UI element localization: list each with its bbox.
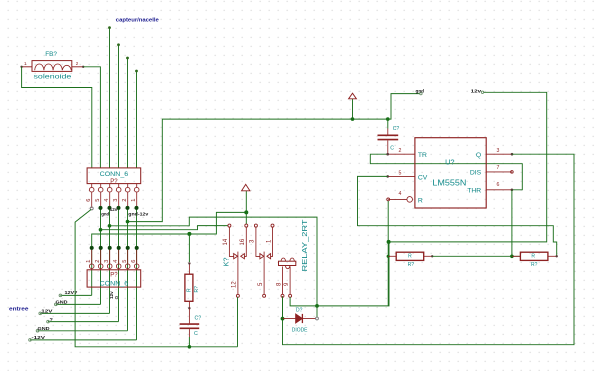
svg-text:1: 1 — [86, 260, 92, 263]
svg-text:6: 6 — [497, 182, 500, 188]
svg-text:5: 5 — [95, 199, 101, 202]
connector P3 CONN_6 body — [87, 168, 141, 184]
svg-text:R: R — [187, 288, 193, 292]
svg-text:6: 6 — [86, 199, 92, 202]
resistor R2 top pin — [188, 263, 190, 274]
svg-text:5: 5 — [399, 170, 402, 176]
svg-text:CV: CV — [418, 175, 428, 182]
junction above lower connector pin4 — [117, 246, 121, 250]
node GND entree stub — [56, 303, 101, 305]
wire 12v net: diode column right and up to resistors — [317, 244, 389, 306]
relay K1 contact triangle b — [241, 254, 245, 259]
svg-text:12: 12 — [232, 281, 238, 288]
svg-text:12V: 12V — [41, 309, 53, 314]
junction gnd-12v at GND symbol stem — [351, 117, 355, 121]
diode D1 cathode open end — [316, 317, 319, 320]
wire TR feedback to THR — [370, 154, 522, 190]
relay K1 contact triangle c — [260, 254, 264, 259]
open end at gnd label — [420, 92, 422, 94]
wire capteur a to connector pin4 — [109, 28, 111, 168]
wire cap C2 to bottom-left rail — [188, 337, 190, 347]
resistor R5 body — [396, 252, 424, 260]
svg-text:C?: C? — [393, 126, 400, 132]
svg-text:FB?: FB? — [45, 51, 57, 58]
capacitor C3 bottom lead to TR — [387, 140, 389, 154]
svg-text:-12V: -12V — [32, 335, 47, 340]
svg-text:12v: 12v — [471, 89, 482, 95]
wire 12V? junction down to resistor R2 — [188, 234, 190, 262]
svg-text:C?: C? — [195, 315, 202, 321]
U2 pin 6 THR — [486, 189, 512, 191]
relay K1 pin 14 — [229, 227, 233, 256]
wire lower connector pin1 down to entree stub — [91, 248, 93, 296]
connector P4 pin 4 — [118, 248, 120, 264]
junction 12v wires at x388 — [387, 240, 391, 244]
node 12V? entree stub — [60, 294, 91, 296]
svg-text:?: ? — [50, 317, 54, 322]
wire capacitor C3 top lead — [387, 119, 389, 128]
wire capteur c to connector pin2 — [127, 58, 129, 168]
resistor R6 body — [520, 252, 548, 260]
inductor FB1 pin 1 — [22, 66, 32, 68]
wire connector P3 pin3 to lower connector — [118, 208, 120, 248]
wire 12V? net: lower pin1 up and right to relay coil junction — [92, 212, 247, 246]
connector P4 pin 3 — [109, 248, 111, 264]
svg-text:THR: THR — [467, 187, 481, 194]
junction at connector P3 pin1 — [135, 206, 139, 210]
wire R5 to R6 — [432, 255, 520, 257]
relay K1 pin 16 — [244, 227, 246, 256]
svg-text:5: 5 — [122, 260, 128, 263]
connector P3 pin 4 — [109, 184, 111, 188]
U2 pin 3 Q — [486, 153, 512, 155]
wire lower connector pin6 down to entree stub — [136, 248, 138, 340]
junction at R6 left pin — [510, 254, 514, 258]
junction bottom-left rail at cap — [188, 345, 192, 349]
wire solenoide pin1 to connector P3 pin6 — [22, 67, 92, 168]
node -12V entree stub — [30, 339, 137, 341]
wire relay pin8 down to diode anode — [282, 297, 284, 318]
capacitor C2 top lead — [188, 308, 190, 323]
diode D1 bar — [301, 314, 303, 323]
svg-text:DIODE: DIODE — [292, 327, 308, 333]
capacitor C3 lead red top — [387, 129, 389, 135]
svg-text:gnd: gnd — [101, 211, 109, 216]
wire solenoide pin2 to connector P3 pin5 — [83, 67, 100, 168]
junction 12V? at relay pin16 column — [244, 210, 248, 214]
wire relay pin16 to junction — [245, 212, 247, 224]
node GND entree stub — [38, 330, 128, 332]
wire lower connector pin3 down to entree stub — [109, 248, 111, 314]
svg-text:7: 7 — [497, 165, 500, 171]
wire gnd-12v: conn pin2 branch up to top rail — [128, 94, 421, 222]
wire gnd net: conn pin5 branch to relay pin 14 — [101, 226, 229, 230]
GND power symbol triangle — [349, 93, 357, 99]
svg-text:2: 2 — [95, 260, 101, 263]
junction at connector P3 pin3 — [117, 206, 121, 210]
wire junction up to power symbol — [245, 191, 247, 213]
svg-text:4: 4 — [113, 260, 119, 263]
capacitor C2 plates — [180, 323, 200, 325]
U2 pin 7 DIS — [486, 171, 512, 173]
junction at R5 left pin — [387, 255, 390, 258]
connector P3 pin 6 — [91, 184, 93, 188]
svg-text:C: C — [390, 145, 394, 151]
resistor R2 bottom pin — [188, 301, 190, 308]
U2 pin 4 R (inverted) — [388, 198, 407, 200]
junction gnd-12v at conn pin2 — [126, 220, 130, 224]
svg-text:12V?: 12V? — [65, 290, 78, 295]
relay K1 coil — [279, 261, 296, 265]
resistor R6 pins — [512, 255, 521, 257]
U2 pin 5 CV — [388, 175, 415, 177]
junction gnd-12v at capacitor C3 lead — [386, 117, 390, 121]
svg-text:CONN_6: CONN_6 — [100, 281, 129, 288]
wire lower connector pin4 down to entree stub — [118, 248, 120, 322]
svg-text:CONN_6: CONN_6 — [100, 171, 129, 178]
diode D1 cathode pin — [302, 318, 315, 320]
svg-text:6: 6 — [131, 260, 137, 263]
power symbol (triangle) above relay — [242, 184, 250, 190]
svg-text:12v: 12v — [109, 291, 114, 299]
diode D1 triangle — [296, 314, 303, 323]
svg-text:U?: U? — [445, 157, 454, 166]
junction 12v branch at conn pin4 — [108, 224, 112, 228]
capacitor C2 bottom lead — [188, 329, 190, 337]
wire connector P3 pin1 to lower connector — [136, 208, 138, 248]
svg-text:R: R — [408, 253, 412, 259]
svg-text:D?: D? — [296, 308, 303, 314]
svg-text:LM555N: LM555N — [432, 179, 466, 188]
wire CV left and down to 225 rail — [358, 176, 557, 256]
svg-text:P?: P? — [110, 179, 118, 185]
wire THR down to resistor R6 — [511, 190, 513, 256]
junction at connector P3 pin5 — [99, 206, 103, 210]
junction diode anode — [281, 317, 285, 321]
svg-text:DIS: DIS — [470, 170, 482, 177]
diode D1 anode pin — [283, 318, 296, 320]
connector P4 pin 6 — [136, 248, 138, 264]
capacitor C3 plates — [378, 134, 399, 136]
wire 12v label down right side to resistor junction — [390, 92, 547, 242]
svg-text:R?: R? — [531, 262, 538, 268]
node ? entree stub — [48, 321, 119, 323]
wire relay pin9 to 12v junction — [290, 297, 317, 306]
connector P3 pin 1 — [136, 184, 138, 188]
junction above lower connector pin6 — [135, 246, 139, 250]
relay K1 coil pin 8 — [282, 267, 284, 295]
wire R pin down through 12v junction to resistor R5 — [387, 201, 389, 306]
svg-text:2: 2 — [399, 148, 402, 154]
svg-text:3: 3 — [497, 148, 500, 154]
wire connector P3 pin5 to lower connector — [100, 208, 102, 248]
junction 12V? at resistor R2 top — [187, 232, 191, 236]
inductor FB1 pin 2 — [72, 66, 83, 68]
wire connector P3 pin2 to lower connector — [127, 208, 129, 248]
wire capteur b to connector pin3 — [118, 45, 120, 168]
node 12V entree stub — [40, 312, 109, 314]
wire diagonal from conn P3 pin6 and bottom-left rail — [75, 209, 237, 346]
relay K1 contact triangle a — [234, 254, 238, 259]
connector P4 pin 5 — [127, 248, 129, 264]
wire 12v net: conn pin4 branch to diode cathode — [110, 217, 318, 317]
connector P4 pin 2 — [100, 248, 102, 264]
svg-text:R?: R? — [194, 286, 200, 293]
small circle near lower pin4 wire — [115, 296, 117, 298]
wire relay pin12 down to bottom-left rail — [237, 297, 239, 347]
U2 pin 2 TR — [388, 153, 415, 155]
svg-text:GND: GND — [56, 300, 69, 305]
junction gnd branch — [99, 228, 103, 232]
svg-text:4: 4 — [104, 199, 110, 202]
svg-text:P?: P? — [110, 273, 118, 279]
svg-text:R: R — [531, 253, 535, 259]
svg-text:16: 16 — [240, 238, 246, 245]
wire lower connector pin2 down to entree stub — [100, 248, 102, 305]
svg-text:R?: R? — [408, 262, 415, 268]
connector P3 pin 2 — [127, 184, 129, 188]
connector P3 pin 5 — [100, 184, 102, 188]
open pin end connector P3 pin6 — [90, 207, 93, 210]
wire capteur d to connector pin1 — [136, 71, 138, 168]
svg-text:Q: Q — [476, 152, 481, 159]
junction at connector P3 pin2 — [126, 206, 130, 210]
wire Q right, down right side to bottom rail, to relay pin 8 — [283, 154, 575, 345]
connector P3 pin 3 — [118, 184, 120, 188]
resistor R5 pins — [388, 255, 396, 257]
wire connector P3 pin4 to lower connector — [109, 208, 111, 248]
svg-text:capteur/nacelle: capteur/nacelle — [116, 17, 159, 23]
svg-text:C: C — [194, 331, 198, 337]
svg-text:3: 3 — [113, 199, 119, 202]
wire stem to GND power symbol — [352, 99, 354, 119]
svg-text:GND: GND — [38, 326, 51, 331]
wire lower connector pin5 down to entree stub — [127, 248, 129, 331]
junction above lower connector pin3 — [108, 246, 112, 250]
relay K1 coil pin 9 — [289, 267, 291, 295]
svg-text:3: 3 — [104, 260, 110, 263]
svg-text:14: 14 — [223, 238, 229, 245]
svg-text:TR: TR — [418, 152, 427, 159]
connector P4 CONN_6 body — [87, 270, 141, 287]
svg-text:gnd: gnd — [416, 88, 425, 93]
svg-text:2: 2 — [122, 199, 128, 202]
svg-text:12v: 12v — [110, 207, 118, 212]
op-amp U2 LM555N body — [415, 138, 486, 208]
junction above lower connector pin5 — [126, 246, 130, 250]
svg-text:1: 1 — [131, 199, 137, 202]
svg-text:K?: K? — [222, 257, 231, 266]
svg-text:4: 4 — [399, 191, 402, 197]
junction above lower connector pin2 — [99, 246, 103, 250]
relay K1 pin 1 — [271, 227, 273, 256]
svg-text:gnd-12v: gnd-12v — [128, 211, 148, 216]
svg-text:solenoide: solenoide — [34, 74, 72, 81]
open end at 12v label — [481, 91, 483, 93]
svg-text:RELAY_2RT: RELAY_2RT — [302, 219, 309, 272]
relay K1 pin 3 — [256, 227, 260, 256]
resistor R2 body — [185, 274, 193, 301]
relay K1 blade pin 12 — [237, 252, 239, 295]
junction 12v at diode column — [315, 304, 319, 308]
connector P4 pin 1 — [91, 248, 93, 264]
svg-text:R: R — [418, 198, 423, 205]
relay K1 blade pin 5 — [263, 252, 265, 295]
inductor FB1 body — [32, 61, 72, 72]
relay K1 contact triangle d — [267, 254, 271, 259]
junction at connector P3 pin4 — [108, 206, 112, 210]
junction above lower connector pin1 — [90, 246, 94, 250]
svg-text:entree: entree — [9, 306, 29, 312]
